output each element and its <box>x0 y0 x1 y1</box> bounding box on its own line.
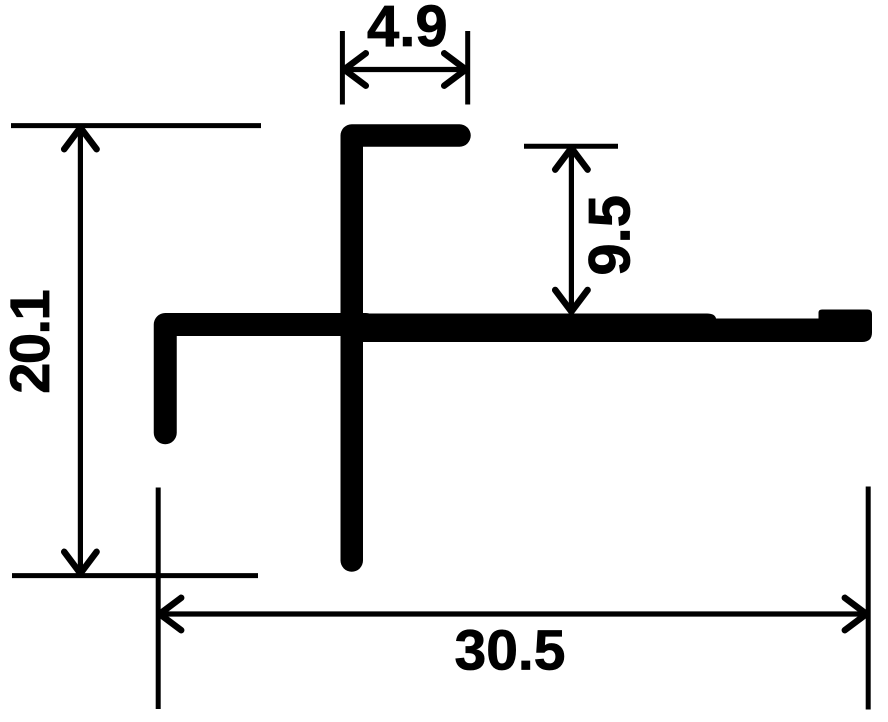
dim 30.5 right arrowhead <box>845 598 867 630</box>
dim 30.5 right extension line <box>866 487 871 710</box>
dim 9.5 dimension line <box>569 148 574 312</box>
dim 20.1 bottom arrowhead <box>64 552 96 574</box>
dim 4.9 left arrowhead <box>344 53 366 85</box>
svg-text:30.5: 30.5 <box>455 619 566 683</box>
dim 20.1 dimension line <box>78 128 83 574</box>
dim 4.9 left extension line <box>340 31 345 105</box>
dim 9.5 top arrowhead <box>555 148 587 170</box>
svg-text:20.1: 20.1 <box>0 290 61 393</box>
dim 4.9 right extension line <box>465 31 470 105</box>
dim 20.1 top extension line <box>11 123 261 128</box>
profile left arm and left stub <box>165 325 366 433</box>
dim 30.5 left extension line <box>156 488 161 710</box>
dim 20.1 bottom extension line <box>12 573 258 578</box>
dim 30.5 dimension line <box>159 611 867 616</box>
dim 30.5 left arrowhead <box>160 598 182 630</box>
dim 9.5 bottom arrowhead <box>555 290 587 312</box>
dim 4.9 right arrowhead <box>444 53 466 85</box>
dim 20.1 top arrowhead <box>64 128 96 150</box>
svg-text:9.5: 9.5 <box>578 195 643 276</box>
svg-text:4.9: 4.9 <box>367 0 448 59</box>
profile right bar with step and end bump <box>351 310 872 343</box>
dim 4.9 dimension line <box>344 67 467 72</box>
profile top arm and center vertical bar <box>352 136 460 561</box>
dim 9.5 top extension line <box>524 144 618 149</box>
